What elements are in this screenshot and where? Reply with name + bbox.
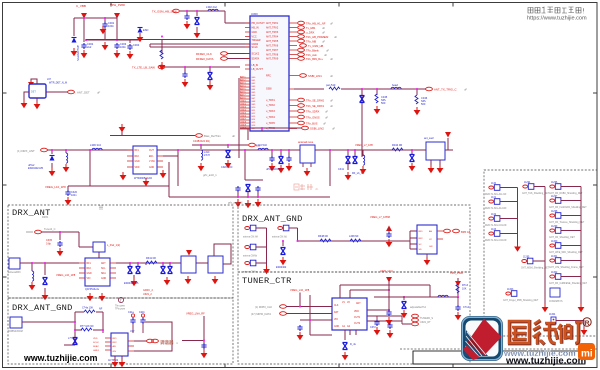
svg-text:GND: GND <box>101 278 106 280</box>
power net VPH <box>114 13 120 19</box>
SEC-D <box>238 269 470 364</box>
ground <box>409 163 416 171</box>
IC U306 antenna tuner <box>300 145 315 163</box>
svg-text:VREG_L7_1P8: VREG_L7_1P8 <box>355 143 373 147</box>
svg-text:u_TRX1: u_TRX1 <box>266 99 275 102</box>
svg-text:J1304: J1304 <box>549 314 556 316</box>
svg-text:VIO: VIO <box>334 319 338 321</box>
ground <box>401 310 408 318</box>
ground <box>114 50 121 58</box>
svg-text:R344 0R: R344 0R <box>392 143 402 147</box>
TVS diode <box>195 18 200 25</box>
capacitor C370 <box>297 325 302 331</box>
capacitor with ring C21b <box>141 314 144 317</box>
ground <box>386 239 393 247</box>
top pin wires <box>340 285 430 340</box>
resistor R350 <box>84 310 95 313</box>
TVS diode big <box>343 343 348 350</box>
power flag <box>445 132 451 138</box>
svg-text:SDATA: SDATA <box>252 58 260 61</box>
svg-text:EN1: EN1 <box>149 156 154 158</box>
ground <box>137 34 144 42</box>
capacitor C372 <box>374 320 379 326</box>
svg-text:UIM1_DT: UIM1_DT <box>420 321 431 324</box>
ground <box>437 165 444 173</box>
svg-text:VPH_PWR: VPH_PWR <box>110 3 126 7</box>
svg-text:ANT_TX_TRIG_C: ANT_TX_TRIG_C <box>434 88 457 92</box>
svg-text:DRX1: DRX1 <box>42 216 49 219</box>
connector oval <box>196 134 203 138</box>
svg-text:u_DRX: u_DRX <box>306 31 315 35</box>
ground <box>342 352 349 360</box>
TVS diode pair2 <box>161 267 166 274</box>
svg-text:uF: uF <box>332 127 335 131</box>
capacitor C304 <box>127 44 132 50</box>
svg-text:GNT_RF_Shielding_DET: GNT_RF_Shielding_DET <box>549 237 575 239</box>
capacitor C320 <box>65 190 70 196</box>
svg-text:ROBND.BOM: ROBND.BOM <box>8 330 23 333</box>
svg-text:TRIGER: TRIGER <box>252 39 261 42</box>
svg-text:TRx_HB_H1_NF: TRx_HB_H1_NF <box>306 22 326 26</box>
right col unit4 <box>549 226 575 239</box>
diode D301 <box>138 28 143 33</box>
IC U302 antenna detect <box>29 84 46 98</box>
ground <box>65 197 72 205</box>
connector oval <box>173 9 180 13</box>
svg-text:u_TRX3: u_TRX3 <box>266 110 275 113</box>
svg-text:C341: C341 <box>338 168 345 171</box>
right chain: wire <box>116 263 208 278</box>
unit a <box>243 225 258 238</box>
svg-text:SCL: SCL <box>101 268 106 270</box>
svg-text:TRx_HB_PRIME#2: TRx_HB_PRIME#2 <box>306 35 329 39</box>
svg-text:mi: mi <box>581 349 593 360</box>
svg-text:GNT_Finger_PRB_Shielding_DET: GNT_Finger_PRB_Shielding_DET <box>503 299 539 302</box>
left pin labels <box>252 22 266 71</box>
svg-text:SCLK: SCLK <box>93 342 99 344</box>
power flag VREG <box>386 277 392 283</box>
svg-text:HB_IN: HB_IN <box>252 27 259 30</box>
svg-text:SCLK2: SCLK2 <box>252 53 260 56</box>
svg-text:u_TRX2: u_TRX2 <box>266 104 275 107</box>
svg-text:GRFC_2: GRFC_2 <box>143 289 153 292</box>
power arrow bent <box>31 79 37 84</box>
svg-text:L_Pair_1(2): L_Pair_1(2) <box>107 244 120 247</box>
svg-text:500: 500 <box>421 102 426 106</box>
mid unit1 <box>522 182 550 195</box>
left pins <box>245 23 250 69</box>
svg-text:antena3.tune: antena3.tune <box>298 140 314 144</box>
svg-text:GND2: GND2 <box>240 104 247 106</box>
TVS diode <box>208 73 213 80</box>
svg-text:UIM1_2: UIM1_2 <box>143 293 152 296</box>
IC U316 <box>417 225 437 254</box>
ground <box>184 21 191 29</box>
svg-text:T: T <box>120 299 122 303</box>
svg-text:ANT: ANT <box>101 262 106 265</box>
svg-text:SCLK: SCLK <box>252 46 259 49</box>
right col unit2 <box>549 196 587 209</box>
svg-text:500: 500 <box>381 101 386 105</box>
svg-text:ESD0402-M5: ESD0402-M5 <box>28 167 44 170</box>
connector oval Tuner4_C <box>26 231 33 233</box>
power net VBAT <box>81 13 87 19</box>
svg-text:uF: uF <box>330 104 333 108</box>
ground <box>49 168 56 176</box>
svg-text:BR5 G5: BR5 G5 <box>461 230 471 234</box>
inductor L306 <box>92 148 102 150</box>
svg-text:ANT: ANT <box>356 302 361 305</box>
title block dashed lines <box>400 348 597 350</box>
watermark text 圖纸街 <box>509 320 582 345</box>
ground <box>278 165 285 173</box>
svg-text:DRX_ANT_GND: DRX_ANT_GND <box>242 214 303 224</box>
wire top rail <box>74 16 140 43</box>
mid gnd bus <box>533 187 546 305</box>
ground <box>131 278 138 286</box>
TVS diode <box>360 96 365 103</box>
resistor R305 <box>160 50 163 59</box>
bottom long wire <box>68 150 330 197</box>
svg-text:MLB-T1-SIG-A12-NF: MLB-T1-SIG-A12-NF <box>485 207 507 210</box>
inductor pair box <box>93 242 105 252</box>
TVS diode <box>281 248 286 255</box>
diode D300 <box>72 38 77 43</box>
svg-text:SC: SC <box>419 244 422 246</box>
power flag VRH <box>455 281 461 287</box>
capacitor C301 <box>102 22 107 28</box>
pin SSBI row <box>289 76 299 90</box>
svg-text:GNT_RF_CoB0/ESE_Shielding_DET: GNT_RF_CoB0/ESE_Shielding_DET <box>549 283 588 285</box>
capacitor C302 <box>81 43 86 49</box>
svg-text:10K: 10K <box>462 288 467 291</box>
svg-text:ant_sw2: ant_sw2 <box>424 136 434 140</box>
ground <box>119 359 126 367</box>
inductor L311 <box>32 271 34 281</box>
wire from tuner oval <box>41 232 99 258</box>
connector oval pair right <box>444 229 451 233</box>
registered mark <box>583 318 591 326</box>
svg-text:uF: uF <box>330 57 333 61</box>
ground <box>428 165 435 173</box>
ground <box>263 266 270 274</box>
svg-text:ANT7: ANT7 <box>240 94 246 97</box>
svg-text:Tx_GSM_HB: Tx_GSM_HB <box>308 44 324 48</box>
ground <box>374 106 381 114</box>
svg-text:RFFE0_DATA: RFFE0_DATA <box>196 57 214 61</box>
right col unit3 <box>549 211 585 224</box>
ground <box>280 257 287 265</box>
svg-text:≡: ≡ <box>176 342 178 346</box>
svg-text:C?4a 10K: C?4a 10K <box>82 307 93 310</box>
right col unit7 <box>549 272 588 285</box>
svg-text:TRx_SE_DRX1: TRx_SE_DRX1 <box>306 104 325 108</box>
svg-text:100n: 100n <box>120 45 126 49</box>
svg-text:ANT2: ANT2 <box>240 79 246 82</box>
svg-text:ANT_TRX7: ANT_TRX7 <box>266 49 279 52</box>
svg-text:VREG_LNA_RF: VREG_LNA_RF <box>186 312 205 316</box>
svg-text:L306 3n3: L306 3n3 <box>90 143 101 147</box>
svg-text:L348 NF: L348 NF <box>349 235 359 238</box>
ground <box>245 200 252 208</box>
muddy watermark label <box>160 339 178 346</box>
svg-text:VDD: VDD <box>135 167 140 169</box>
ground <box>185 276 192 284</box>
ground <box>578 304 585 312</box>
svg-text:antena.GN.Nd: antena.GN.Nd <box>272 236 287 239</box>
svg-text:MLB-T1-SIG-C02-NF: MLB-T1-SIG-C02-NF <box>485 240 507 242</box>
wire <box>24 92 68 101</box>
svg-text:ACT3522: ACT3522 <box>108 359 119 362</box>
svg-text:TRx_B39_Rx+: TRx_B39_Rx+ <box>306 57 323 61</box>
wire to IC <box>283 228 417 249</box>
svg-text:SDA: SDA <box>101 272 106 275</box>
svg-text:C34B R24 R4j: C34B R24 R4j <box>193 139 210 143</box>
svg-text:QAT3516+0u: QAT3516+0u <box>85 288 100 291</box>
connector oval <box>249 143 256 147</box>
watermark logo shield <box>461 316 503 361</box>
ground <box>99 293 106 301</box>
inductor bead <box>391 87 401 89</box>
resistor R341 <box>146 261 157 264</box>
svg-text:RFC: RFC <box>266 75 271 78</box>
connector oval <box>221 57 228 61</box>
svg-text:WTR_DET_N_M: WTR_DET_N_M <box>49 82 67 85</box>
SEC-C <box>238 205 471 274</box>
caps under IC <box>377 316 390 323</box>
svg-text:GND1: GND1 <box>240 101 247 103</box>
section box DRX_ANT <box>8 205 233 298</box>
right lower pins <box>289 100 297 129</box>
wire secondary <box>163 154 178 186</box>
svg-text:SSBI: SSBI <box>266 88 272 91</box>
right of tuner: TVS pair <box>348 150 363 170</box>
filter box F311 <box>208 256 223 273</box>
right connector ovals upper <box>298 21 338 61</box>
ground <box>225 160 232 168</box>
svg-text:TRx_Blank: TRx_Blank <box>306 49 319 53</box>
left input box <box>9 258 20 269</box>
svg-text:MLB-T1-SIG-A11-NF: MLB-T1-SIG-A11-NF <box>485 193 507 196</box>
capacitor C331 <box>286 156 291 162</box>
ground <box>127 51 134 59</box>
ground <box>81 50 88 58</box>
TVS diode <box>411 150 413 154</box>
capacitor with ring C21a <box>131 314 134 317</box>
IC U307 <box>426 142 445 160</box>
ground <box>386 317 393 325</box>
svg-text:RF2: RF2 <box>135 156 140 158</box>
svg-text:anttenaRF3: anttenaRF3 <box>8 271 21 274</box>
svg-text:GND9: GND9 <box>240 125 247 127</box>
SEC-WM <box>400 316 597 367</box>
ground <box>112 359 119 367</box>
IC U310 tuner <box>85 258 110 286</box>
ground <box>29 282 36 290</box>
ground <box>424 257 431 265</box>
svg-text:L7?: L7? <box>68 337 73 340</box>
TVS diode <box>73 338 78 345</box>
faint watermark small <box>294 184 319 191</box>
svg-text:uPG2250T5N: uPG2250T5N <box>76 45 80 61</box>
IC U320 tuner controller <box>332 298 367 330</box>
left col unit3 <box>485 214 507 227</box>
svg-text:C_VBB: C_VBB <box>76 4 86 8</box>
resistor R351 <box>81 328 92 331</box>
svg-text:DRX_ANT_GND: DRX_ANT_GND <box>12 303 73 313</box>
section box shielding <box>484 170 597 336</box>
svg-text:uF: uF <box>323 122 326 126</box>
resistor R348 <box>320 239 331 242</box>
svg-text:pan 510: pan 510 <box>326 83 336 87</box>
wire TRX bus bottom <box>240 128 302 131</box>
svg-text:MLB-T1-SIG-C01-NF: MLB-T1-SIG-C01-NF <box>485 225 507 227</box>
ground <box>42 292 49 300</box>
ground <box>374 327 381 335</box>
ground <box>201 350 208 358</box>
svg-text:ANT_TRX1: ANT_TRX1 <box>266 22 279 25</box>
svg-text:TUNER_CTR: TUNER_CTR <box>242 276 292 286</box>
capacitor C373 <box>387 323 392 329</box>
connector CON <box>550 288 560 297</box>
svg-text:GNT_RF_DCBK_Shielding_DET: GNT_RF_DCBK_Shielding_DET <box>549 193 583 195</box>
svg-text:GNT_LTE_Shielding_Frame_DET: GNT_LTE_Shielding_Frame_DET <box>549 266 584 269</box>
svg-text:TRx_GNSS: TRx_GNSS <box>306 116 320 120</box>
svg-text:uF: uF <box>322 31 325 35</box>
svg-text:TRx_MB: TRx_MB <box>306 40 316 44</box>
svg-text:LB_OUT/T: LB_OUT/T <box>252 68 264 71</box>
capacitor C313 <box>182 72 187 78</box>
svg-text:ANT_TRX5: ANT_TRX5 <box>266 40 279 43</box>
resistor R349 <box>350 239 361 242</box>
connector oval <box>302 126 309 130</box>
svg-text:OUT: OUT <box>149 150 154 152</box>
TVS diode <box>246 185 251 192</box>
center cluster: inductor L310 <box>258 148 268 150</box>
ground <box>255 199 262 207</box>
svg-text:调谐器: 调谐器 <box>160 339 174 346</box>
capacitor C330 <box>269 156 274 162</box>
svg-text:AN: AN <box>429 230 432 233</box>
svg-text:www.tuzhijie.com: www.tuzhijie.com <box>505 356 586 367</box>
svg-text:GND1: GND1 <box>93 350 100 352</box>
svg-text:ANT_TRX8: ANT_TRX8 <box>266 54 279 57</box>
svg-text:Tuner4_C: Tuner4_C <box>44 227 56 231</box>
svg-text:GND: GND <box>149 167 154 169</box>
svg-text:ANT_DET: ANT_DET <box>77 91 90 95</box>
ground <box>542 304 549 312</box>
left col unit1 <box>485 183 507 196</box>
RFC wire row <box>294 89 426 157</box>
connector oval <box>221 52 228 56</box>
ground <box>414 107 421 115</box>
ground <box>34 101 41 109</box>
filter box F310 <box>181 256 196 273</box>
ground <box>159 62 166 70</box>
svg-text:R341 0R: R341 0R <box>146 257 156 260</box>
svg-text:uF: uF <box>330 74 333 78</box>
svg-text:GNT_WFE_WiFi_Shielding_DET: GNT_WFE_WiFi_Shielding_DET <box>549 252 583 254</box>
svg-text:antena.GNNb: antena.GNNb <box>243 255 258 258</box>
unit c <box>243 260 258 273</box>
wire right rail <box>374 278 458 297</box>
svg-text:GN: GN <box>429 246 433 248</box>
capacitor C335 <box>255 186 260 192</box>
svg-text:uF: uF <box>334 35 337 39</box>
ground <box>212 276 219 284</box>
svg-text:RF1: RF1 <box>135 150 140 152</box>
svg-text:ANT1: ANT1 <box>240 76 246 79</box>
svg-text:ANT_TRX4: ANT_TRX4 <box>266 36 279 39</box>
left col unit4 <box>485 229 507 242</box>
svg-text:C320 NFD: C320 NFD <box>221 166 233 169</box>
svg-text:GND8: GND8 <box>240 122 247 124</box>
TVS diode <box>403 297 405 300</box>
ground <box>297 332 304 340</box>
ground <box>100 26 107 34</box>
mid unit2 <box>521 257 550 270</box>
resistor R344 <box>392 148 403 151</box>
svg-text:CON#4#SYS: CON#4#SYS <box>549 301 563 303</box>
svg-text:ESD0402: ESD0402 <box>276 266 287 269</box>
svg-text:Thin.pwm: Thin.pwm <box>115 306 125 308</box>
svg-text:VDD: VDD <box>354 311 359 313</box>
capacitor C311 <box>184 14 189 20</box>
inductor L310b <box>201 150 203 160</box>
ground <box>120 172 127 180</box>
svg-text:db: db <box>315 187 319 191</box>
ground <box>21 100 28 108</box>
ground <box>207 82 214 90</box>
capacitor C360 <box>386 232 391 238</box>
wire <box>239 78 248 158</box>
inductor L305 <box>66 153 68 163</box>
right pins upper <box>289 23 297 59</box>
svg-text:uF: uF <box>464 88 467 92</box>
SEC-MID <box>17 124 453 208</box>
SEC-IC <box>239 12 467 158</box>
svg-text:AN: AN <box>113 345 116 348</box>
mi logo <box>578 343 595 360</box>
svg-text:0.8p: 0.8p <box>46 243 51 246</box>
svg-text:OUT2: OUT2 <box>354 323 361 325</box>
svg-text:uF: uF <box>330 22 333 26</box>
section box DRX_ANT_GND left <box>8 298 233 364</box>
resistor R340 <box>329 87 340 90</box>
power arrow down <box>386 226 392 232</box>
svg-text:100n: 100n <box>108 24 114 28</box>
wire <box>20 263 79 292</box>
ground <box>198 163 205 171</box>
svg-text:GND7: GND7 <box>240 119 247 121</box>
TVS diode <box>226 151 231 158</box>
svg-text:GND5: GND5 <box>240 113 247 115</box>
power flag <box>186 250 192 256</box>
ground <box>57 248 64 256</box>
routing loop <box>214 244 231 264</box>
svg-text:C714: C714 <box>463 306 470 309</box>
ground <box>87 293 94 301</box>
svg-text:WTR4905AGC0: WTR4905AGC0 <box>134 177 153 180</box>
connector oval <box>426 87 433 91</box>
left lower pin cluster <box>240 78 250 129</box>
ground <box>345 172 352 180</box>
svg-text:GND4: GND4 <box>240 110 247 112</box>
svg-text:VREG_L10_1P8: VREG_L10_1P8 <box>45 185 66 189</box>
svg-text:TRx_BUS: TRx_BUS <box>306 122 318 126</box>
svg-text:RF1: RF1 <box>87 263 92 265</box>
inductor L370 <box>438 295 448 297</box>
